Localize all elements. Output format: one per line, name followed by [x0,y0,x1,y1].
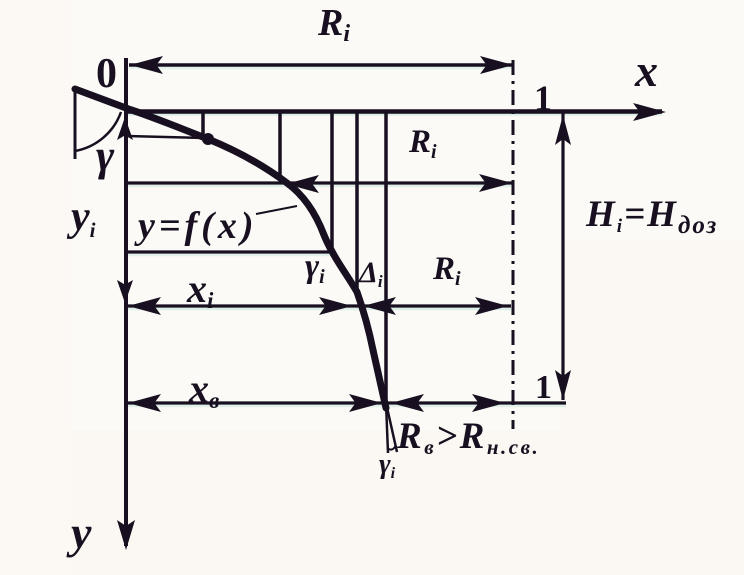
svg-text:x: x [634,45,658,96]
svg-text:1: 1 [534,78,552,118]
svg-text:γ: γ [96,131,115,180]
svg-text:Ri: Ri [408,124,437,163]
svg-text:1: 1 [535,369,552,406]
svg-text:xi: xi [186,266,214,313]
svg-text:Ri: Ri [432,251,461,290]
svg-text:y=f(x): y=f(x) [134,205,257,247]
svg-text:xв: xв [188,366,219,413]
svg-text:Hi=Hдоз: Hi=Hдоз [585,194,718,239]
svg-text:Ri: Ri [317,2,350,47]
svg-text:0: 0 [96,51,117,97]
svg-text:Δi: Δi [358,256,383,291]
svg-text:Rв>Rн.св.: Rв>Rн.св. [396,416,540,459]
svg-text:yi: yi [66,194,96,242]
